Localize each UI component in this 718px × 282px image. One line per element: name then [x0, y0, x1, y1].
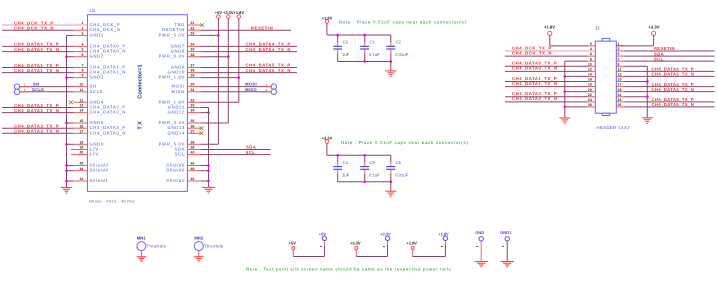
svg-text:40: 40: [191, 151, 195, 155]
svg-text:21: 21: [618, 93, 622, 97]
svg-text:4: 4: [81, 43, 83, 47]
svg-text:+3.3V: +3.3V: [322, 135, 333, 140]
svg-text:15: 15: [79, 119, 83, 123]
svg-text:1uF: 1uF: [342, 173, 350, 178]
svg-text:12: 12: [588, 67, 592, 71]
svg-text:41: 41: [79, 177, 83, 181]
svg-text:PWR_5.0V: PWR_5.0V: [159, 32, 185, 37]
svg-text:24: 24: [191, 43, 195, 47]
svg-text:U1: U1: [90, 8, 96, 13]
svg-text:GND14: GND14: [168, 130, 185, 135]
svg-text:Note : Place 0.01uF caps near: Note : Place 0.01uF caps near each conne…: [341, 140, 468, 145]
svg-text:CH4_DATA0_TX_N: CH4_DATA0_TX_N: [14, 47, 59, 52]
svg-text:11: 11: [618, 67, 622, 71]
svg-text:1: 1: [81, 21, 83, 25]
svg-text:33: 33: [191, 104, 195, 108]
svg-text:GND3: GND3: [90, 75, 104, 80]
svg-text:15: 15: [618, 78, 622, 82]
svg-text:+1.8V: +1.8V: [438, 231, 449, 236]
svg-text:SCLK: SCLK: [32, 87, 45, 92]
svg-text:GND1: GND1: [500, 230, 512, 235]
svg-text:21: 21: [191, 21, 195, 25]
svg-text:20: 20: [588, 88, 592, 92]
svg-text:+1.8V: +1.8V: [544, 25, 555, 30]
svg-text:13: 13: [618, 73, 622, 77]
svg-text:3: 3: [81, 32, 83, 36]
svg-text:43: 43: [79, 162, 83, 166]
svg-text:39: 39: [191, 146, 195, 150]
svg-text:MISO: MISO: [171, 89, 185, 94]
svg-text:0.01uF: 0.01uF: [395, 173, 408, 178]
svg-text:CH4_DATA0_TX_N: CH4_DATA0_TX_N: [512, 66, 557, 71]
svg-text:17: 17: [79, 129, 83, 133]
svg-text:14: 14: [588, 73, 592, 77]
svg-text:PWR_3.3V: PWR_3.3V: [159, 54, 185, 59]
svg-text:CH4_DATA2_TX_N: CH4_DATA2_TX_N: [14, 108, 59, 113]
svg-text:CH4_DATA4_TX_N: CH4_DATA4_TX_N: [246, 47, 291, 52]
svg-text:Note : Test point silk screen: Note : Test point silk screen name shoul…: [246, 267, 451, 272]
svg-text:18: 18: [588, 83, 592, 87]
svg-text:22: 22: [191, 26, 195, 30]
svg-text:8: 8: [590, 57, 592, 61]
svg-text:C3: C3: [343, 40, 349, 45]
svg-text:C1: C1: [370, 40, 376, 45]
svg-text:CH4_DATA5_TX_N: CH4_DATA5_TX_N: [652, 102, 695, 107]
svg-text:+1.8V: +1.8V: [322, 15, 333, 20]
svg-text:8: 8: [81, 69, 83, 73]
svg-text:46: 46: [191, 167, 195, 171]
svg-text:25: 25: [618, 103, 622, 107]
svg-text:26: 26: [191, 53, 195, 57]
svg-text:C2: C2: [396, 40, 402, 45]
svg-text:CH4_DATA2_N: CH4_DATA2_N: [90, 110, 127, 115]
svg-text:MH2: MH2: [194, 235, 204, 240]
svg-text:CH4_DATA4_TX_N: CH4_DATA4_TX_N: [652, 87, 695, 92]
svg-text:C5: C5: [370, 160, 376, 165]
svg-text:C4: C4: [343, 160, 349, 165]
svg-text:1uF: 1uF: [342, 52, 350, 57]
svg-text:25: 25: [191, 48, 195, 52]
svg-text:30: 30: [191, 83, 195, 87]
svg-text:+5V: +5V: [215, 10, 223, 15]
svg-text:27: 27: [191, 64, 195, 68]
svg-text:4: 4: [590, 47, 592, 51]
svg-text:36: 36: [191, 124, 195, 128]
svg-text:23: 23: [618, 98, 622, 102]
svg-text:0.1uF: 0.1uF: [369, 173, 380, 178]
svg-text:CH4_DATA3_TX_N: CH4_DATA3_TX_N: [652, 72, 695, 77]
svg-text:16: 16: [588, 78, 592, 82]
svg-text:Shield4: Shield4: [90, 168, 109, 173]
svg-text:GND2: GND2: [90, 54, 104, 59]
svg-text:RESETIN: RESETIN: [251, 25, 273, 30]
svg-text:SCL: SCL: [175, 152, 185, 157]
svg-text:+1.8V: +1.8V: [234, 10, 245, 15]
svg-text:ThruHole: ThruHole: [204, 243, 224, 248]
svg-text:45: 45: [191, 162, 195, 166]
svg-text:2: 2: [81, 26, 83, 30]
svg-text:19: 19: [79, 146, 83, 150]
svg-text:20: 20: [79, 151, 83, 155]
svg-text:44: 44: [79, 167, 83, 171]
svg-text:17: 17: [618, 83, 622, 87]
svg-text:TX: TX: [138, 120, 144, 130]
svg-text:SCL: SCL: [654, 56, 664, 61]
svg-text:+3.3V: +3.3V: [350, 241, 361, 246]
svg-text:SCL: SCL: [246, 150, 256, 155]
svg-text:31: 31: [191, 88, 195, 92]
svg-text:5: 5: [81, 48, 83, 52]
svg-text:CH4_DATA2_TX_N: CH4_DATA2_TX_N: [512, 96, 557, 101]
svg-text:J2: J2: [595, 26, 600, 31]
svg-text:11: 11: [80, 88, 84, 92]
svg-text:ThruHole: ThruHole: [147, 243, 167, 248]
svg-text:38: 38: [191, 140, 195, 144]
svg-text:C6: C6: [396, 160, 402, 165]
svg-text:16: 16: [79, 124, 83, 128]
svg-text:HEADER 13X2: HEADER 13X2: [597, 125, 631, 130]
svg-text:Note : Place 0.01uF caps near: Note : Place 0.01uF caps near each conne…: [339, 20, 466, 25]
svg-text:12: 12: [79, 98, 83, 102]
svg-text:Shield2: Shield2: [166, 178, 185, 183]
svg-text:23: 23: [191, 32, 195, 36]
svg-text:GND: GND: [475, 230, 484, 235]
svg-text:7: 7: [618, 57, 620, 61]
svg-text:24: 24: [588, 98, 592, 102]
svg-text:34: 34: [191, 109, 195, 113]
svg-text:35: 35: [191, 119, 195, 123]
svg-text:10: 10: [79, 83, 83, 87]
svg-text:29: 29: [191, 74, 195, 78]
svg-text:18: 18: [79, 140, 83, 144]
svg-text:CH4_DCK_TX_N: CH4_DCK_TX_N: [14, 26, 54, 31]
svg-text:9: 9: [81, 74, 83, 78]
svg-text:14: 14: [79, 109, 83, 113]
svg-text:5: 5: [618, 52, 620, 56]
svg-text:7: 7: [81, 64, 83, 68]
svg-text:19: 19: [618, 88, 622, 92]
svg-text:+1.8V: +1.8V: [406, 241, 417, 246]
svg-text:+5V: +5V: [319, 231, 327, 236]
svg-text:Shield1: Shield1: [90, 178, 109, 183]
svg-text:32: 32: [191, 98, 195, 102]
svg-text:GND12: GND12: [168, 110, 185, 115]
svg-text:CH4_DATA1_TX_N: CH4_DATA1_TX_N: [14, 68, 59, 73]
svg-text:6: 6: [81, 53, 83, 57]
svg-text:CH4_DATA3_TX_N: CH4_DATA3_TX_N: [14, 129, 59, 134]
svg-text:CH4_DATA3_N: CH4_DATA3_N: [90, 130, 127, 135]
svg-text:2: 2: [590, 42, 592, 46]
svg-text:28: 28: [191, 69, 195, 73]
svg-text:9: 9: [618, 62, 620, 66]
svg-text:+3.3V: +3.3V: [223, 10, 234, 15]
svg-text:3: 3: [618, 47, 620, 51]
svg-text:0.1uF: 0.1uF: [369, 52, 380, 57]
svg-text:MISO: MISO: [245, 87, 257, 92]
svg-text:+5V: +5V: [289, 241, 297, 246]
svg-text:22: 22: [588, 93, 592, 97]
svg-text:37: 37: [191, 129, 195, 133]
svg-text:Connector=1: Connector=1: [138, 64, 144, 98]
svg-text:CH4_DATA5_TX_N: CH4_DATA5_TX_N: [246, 68, 291, 73]
svg-text:Shield6: Shield6: [166, 168, 185, 173]
svg-text:CH4_DATA1_TX_N: CH4_DATA1_TX_N: [512, 81, 557, 86]
svg-text:0.01uF: 0.01uF: [395, 52, 408, 57]
svg-text:MH1: MH1: [137, 235, 147, 240]
svg-text:GND1: GND1: [90, 32, 104, 37]
svg-text:+3.3V: +3.3V: [648, 25, 659, 30]
svg-text:10: 10: [588, 62, 592, 66]
svg-text:12V: 12V: [90, 152, 100, 157]
svg-text:13: 13: [79, 104, 83, 108]
svg-text:42: 42: [191, 177, 195, 181]
svg-text:26: 26: [588, 103, 592, 107]
svg-text:Hirose - FX12 - 40 Pos: Hirose - FX12 - 40 Pos: [89, 200, 135, 204]
svg-text:PWR_1.8V: PWR_1.8V: [159, 75, 185, 80]
svg-text:6: 6: [590, 52, 592, 56]
svg-text:SCLK: SCLK: [90, 89, 104, 94]
svg-text:CH4_DCK_TX_N: CH4_DCK_TX_N: [512, 50, 552, 55]
svg-text:+3.3V: +3.3V: [380, 231, 391, 236]
